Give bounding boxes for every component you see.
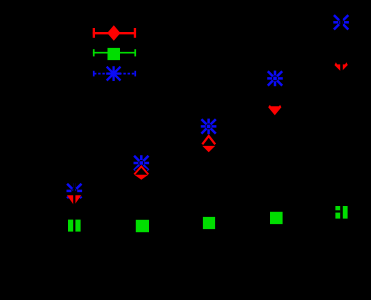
- cluster 1 blue asterisk: [67, 183, 83, 199]
- cluster 2 blue asterisk: [134, 155, 150, 171]
- cluster 5 green filled square: [335, 206, 347, 219]
- cluster 3 blue asterisk: [201, 119, 217, 135]
- legend blue errorbar left cap: [93, 71, 95, 77]
- legend red errorbar left cap: [93, 28, 95, 38]
- cluster 1 black occluder diamond: [67, 190, 82, 202]
- legend green errorbar left cap: [93, 49, 95, 56]
- legend red errorbar sample line: [93, 32, 136, 34]
- legend blue asterisk marker: [106, 66, 121, 81]
- legend green filled square marker: [108, 48, 121, 60]
- cluster 2 red filled diamond (visible lower part): [134, 175, 148, 180]
- legend blue errorbar right cap: [134, 71, 136, 77]
- right border tick notch over green square: [335, 210, 341, 212]
- left plot border (black, occluding): [73, 0, 75, 300]
- cluster 3 red empty diamond outline: [202, 136, 215, 144]
- cluster 4 blue asterisk: [267, 71, 283, 87]
- legend red errorbar right cap: [134, 28, 136, 38]
- cluster 5 blue asterisk: [333, 15, 349, 29]
- cluster 2 black occluder diamond: [135, 165, 148, 175]
- legend red filled diamond marker: [107, 25, 120, 41]
- cluster 3 red filled diamond (visible lower part): [202, 146, 215, 152]
- cluster 2 green filled square: [136, 220, 149, 232]
- legend green errorbar sample line: [93, 52, 136, 54]
- cluster 3 green filled square: [203, 217, 215, 229]
- cluster 5 red filled diamond with cut top: [335, 62, 348, 72]
- cluster 4 red filled diamond with cut top: [268, 105, 281, 115]
- legend blue dashed errorbar sample line: [94, 73, 135, 75]
- cluster 4 green filled square: [270, 212, 283, 224]
- cluster 1 green filled square: [68, 220, 81, 232]
- cluster 2 red empty diamond outline: [134, 166, 148, 174]
- cluster 1 red filled diamond (visible lower part): [67, 195, 81, 205]
- legend green errorbar right cap: [134, 49, 136, 56]
- right plot border (black, occluding): [340, 0, 343, 300]
